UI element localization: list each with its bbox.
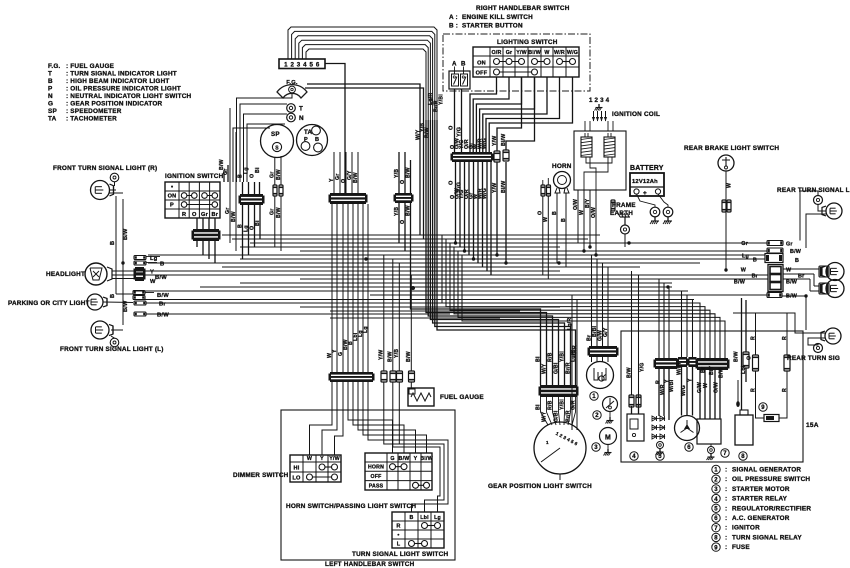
svg-text:•: • [397,532,399,538]
svg-text:•: • [171,185,173,191]
svg-text:PARKING OR CITY LIGHT: PARKING OR CITY LIGHT [8,300,90,307]
svg-text:R/B: R/B [547,352,553,362]
svg-text:LO: LO [292,475,301,481]
svg-text:B: B [753,258,757,264]
svg-text:B/W: B/W [406,351,412,362]
svg-text:REGULATOR/RECTIFIER: REGULATOR/RECTIFIER [732,505,811,512]
svg-text:15A: 15A [806,422,819,429]
svg-text:O/W: O/W [713,382,719,393]
svg-text:T: T [299,106,303,113]
svg-text:TA: TA [48,116,57,123]
svg-text:HEADLIGHT: HEADLIGHT [46,271,85,278]
svg-text:R: R [655,380,661,384]
svg-text:DIMMER SWITCH: DIMMER SWITCH [233,472,289,479]
svg-text:HORN SWITCH/PASSING LIGHT SWIT: HORN SWITCH/PASSING LIGHT SWITCH [286,503,416,510]
svg-text:HI: HI [294,465,300,471]
svg-text:6: 6 [687,445,691,451]
svg-text:1 2 3 4 5 6: 1 2 3 4 5 6 [284,62,320,69]
svg-text:R: R [182,212,186,218]
svg-text:IGNITOR: IGNITOR [732,525,760,532]
svg-text:Y/W: Y/W [516,50,527,56]
svg-text:BATTERY: BATTERY [630,165,664,172]
svg-text:P: P [304,137,308,143]
svg-text:G/Y: G/Y [603,327,609,337]
svg-text:W: W [786,268,792,274]
svg-text:B/W: B/W [155,275,167,281]
svg-text:P: P [48,86,53,93]
svg-text:Y: Y [414,456,418,462]
svg-text:PASS: PASS [369,483,384,489]
svg-text:B/W: B/W [157,313,169,319]
svg-text:Lg: Lg [243,167,249,174]
svg-text:O: O [192,212,197,218]
svg-text:B/W: B/W [786,280,798,286]
svg-text::: : [725,534,727,541]
svg-text:W: W [307,456,312,462]
svg-text:W: W [579,210,585,215]
svg-text:Y/B: Y/B [394,207,400,216]
svg-text:GEAR POSITION LIGHT SWITCH: GEAR POSITION LIGHT SWITCH [488,483,592,490]
svg-text:B: B [160,262,164,268]
svg-text:B/W: B/W [399,456,410,462]
svg-text:8: 8 [714,536,718,542]
svg-text:FRONT TURN SIGNAL LIGHT (R): FRONT TURN SIGNAL LIGHT (R) [53,165,157,172]
svg-text:Bi: Bi [255,167,261,173]
svg-text:SIGNAL GENERATOR: SIGNAL GENERATOR [732,467,801,474]
svg-text:B: B [48,78,53,85]
svg-text:TURN SIGNAL RELAY: TURN SIGNAL RELAY [732,534,802,541]
svg-text:9: 9 [761,405,765,411]
svg-text:W: W [727,183,733,188]
svg-text:B: B [795,258,799,264]
svg-text:W: W [150,279,156,285]
svg-text:Bi: Bi [255,220,261,226]
svg-text:Y/Bl: Y/Bl [439,94,445,105]
svg-text:B: B [561,218,567,222]
svg-text:1: 1 [714,468,718,474]
svg-text:FRONT TURN SIGNAL LIGHT (L): FRONT TURN SIGNAL LIGHT (L) [60,346,164,353]
svg-text:B/Y: B/Y [585,198,591,208]
svg-text:P: P [170,203,174,209]
svg-text:Bl: Bl [535,356,541,362]
svg-text:Br/R: Br/R [565,362,571,374]
svg-text:OFF: OFF [476,70,488,76]
svg-text:B/W: B/W [123,300,129,312]
svg-text:4: 4 [714,497,718,503]
svg-text:B/W: B/W [353,172,359,183]
svg-text:Y: Y [150,270,154,276]
svg-text:F.G.: F.G. [286,80,298,86]
svg-text:B/W: B/W [219,159,225,170]
svg-text:Br: Br [700,367,706,373]
svg-text:: SPEEDOMETER: : SPEEDOMETER [66,108,122,115]
svg-text:: NEUTRAL INDICATOR LIGHT SWIT: : NEUTRAL INDICATOR LIGHT SWITCH [66,93,192,100]
svg-text:2: 2 [714,477,718,483]
svg-text:O: O [449,180,455,185]
svg-text:B: B [315,137,319,143]
svg-text:W: W [543,217,549,222]
svg-text:Bl/W: Bl/W [420,456,433,462]
svg-text:W/G: W/G [681,385,687,396]
svg-text:5: 5 [658,454,662,460]
svg-text:ON: ON [168,194,177,200]
svg-text:B: B [110,241,116,245]
svg-text:12V12Ah: 12V12Ah [632,179,658,185]
svg-text:G: G [338,352,344,356]
svg-text:Y/G: Y/G [457,127,463,137]
svg-text:9: 9 [714,545,718,551]
svg-text:O: O [400,220,406,224]
svg-text:5: 5 [714,507,718,513]
svg-text:B: B [552,211,558,215]
svg-text:W/Bl: W/Bl [676,362,682,375]
svg-text:B: B [409,515,413,521]
svg-text:B: B [110,294,116,298]
svg-text:G/R: G/R [572,345,578,355]
svg-text:: FUEL GAUGE: : FUEL GAUGE [66,63,115,70]
svg-text:: TACHOMETER: : TACHOMETER [66,116,117,123]
svg-text:B/W: B/W [388,351,394,362]
svg-text:B/W: B/W [405,205,411,216]
svg-text:B/Y: B/Y [709,365,715,375]
svg-text:RIGHT HANDLEBAR SWITCH: RIGHT HANDLEBAR SWITCH [476,5,570,12]
svg-text:W: W [544,50,549,56]
svg-text:Y/W: Y/W [492,136,498,146]
svg-text:B/W: B/W [276,207,282,218]
svg-text:Br: Br [211,212,218,218]
svg-text:L: L [397,541,401,547]
svg-text:B/W: B/W [231,211,237,222]
svg-text:1: 1 [546,440,549,445]
svg-text:3: 3 [594,445,598,451]
svg-text:Gr: Gr [270,209,276,215]
svg-text:FRAME: FRAME [612,202,636,209]
svg-text:8: 8 [741,454,745,460]
svg-text:G/Bl: G/Bl [553,362,559,374]
svg-text:S: S [275,146,279,152]
svg-text:B/W: B/W [405,167,411,178]
svg-text:Br: Br [159,302,166,308]
svg-text:OIL PRESSURE SWITCH: OIL PRESSURE SWITCH [732,476,810,483]
svg-text:LIGHTING SWITCH: LIGHTING SWITCH [497,39,558,46]
svg-text:W/R: W/R [554,50,565,56]
svg-text:SP: SP [48,108,57,115]
svg-text::: : [725,515,727,522]
svg-text:ENGINE KILL SWITCH: ENGINE KILL SWITCH [462,14,533,21]
svg-text:LEFT HANDLEBAR SWITCH: LEFT HANDLEBAR SWITCH [325,561,415,568]
svg-text:Y/G: Y/G [640,362,646,372]
svg-text:O/W: O/W [591,207,597,218]
svg-text:Y: Y [320,456,324,462]
svg-text:1 2 3 4: 1 2 3 4 [589,97,610,104]
svg-text:7: 7 [723,451,727,457]
svg-text:F.G.: F.G. [48,63,61,70]
svg-text:Gr: Gr [201,212,209,218]
svg-text:O/R: O/R [491,50,501,56]
svg-text:IGNITION SWITCH: IGNITION SWITCH [165,173,224,180]
svg-text:O: O [449,125,455,130]
svg-text:REAR TURN SIG: REAR TURN SIG [787,355,840,362]
svg-text:STARTER MOTOR: STARTER MOTOR [732,486,790,493]
svg-text:+: + [643,190,647,197]
svg-text:A: A [452,61,457,68]
svg-text:7: 7 [714,526,718,532]
svg-text:N: N [48,93,53,100]
svg-text:B/W: B/W [157,293,169,299]
svg-text:Y/B: Y/B [394,169,400,178]
svg-text:4: 4 [632,454,636,460]
svg-text:B/W: B/W [733,351,739,362]
svg-text:B/W: B/W [734,280,746,286]
svg-text:2: 2 [595,413,599,419]
svg-text:HORN: HORN [368,465,384,471]
svg-text:OFF: OFF [371,474,382,480]
svg-text:STARTER BUTTON: STARTER BUTTON [462,23,523,30]
svg-text::: : [725,544,727,551]
svg-text:R: R [750,336,756,340]
svg-text:: TURN SIGNAL INDICATOR LIGHT: : TURN SIGNAL INDICATOR LIGHT [66,71,177,78]
svg-text:Y/B: Y/B [394,349,400,358]
svg-text:R: R [750,388,756,392]
svg-text:W/G: W/G [482,138,488,149]
svg-text::: : [725,467,727,474]
svg-text:O: O [400,180,406,184]
svg-text:Lbl: Lbl [420,515,429,521]
svg-text:IGNITION COIL: IGNITION COIL [612,111,660,118]
svg-text:B/W: B/W [786,294,798,300]
svg-text:T: T [48,71,52,78]
svg-text::: : [725,505,727,512]
svg-text:Y/Bl: Y/Bl [559,351,565,362]
svg-text:1: 1 [592,394,596,400]
svg-text:N: N [299,115,304,122]
svg-text:O: O [249,174,255,178]
svg-text:Lbl: Lbl [741,365,747,374]
svg-text:B :: B : [449,23,458,30]
svg-text:: HIGH BEAM INDICATOR LIGHT: : HIGH BEAM INDICATOR LIGHT [66,78,170,85]
svg-text:FUSE: FUSE [732,544,750,551]
svg-text:: GEAR POSITION INDICATOR: : GEAR POSITION INDICATOR [66,101,163,108]
svg-text:Gr: Gr [786,242,793,248]
svg-text:STARTER RELAY: STARTER RELAY [732,496,788,503]
svg-text:O: O [538,211,544,215]
svg-text:Y: Y [687,378,693,382]
svg-text:ON: ON [477,60,486,66]
svg-text:Y/W: Y/W [329,456,340,462]
svg-text:Bl/W: Bl/W [501,134,507,146]
svg-text:HORN: HORN [552,163,572,170]
svg-text:W/Bl: W/Bl [669,379,675,392]
svg-text:B/W: B/W [626,367,632,378]
svg-text:W/Y: W/Y [541,363,547,374]
svg-text:SP: SP [271,131,280,138]
svg-text:TURN SIGNAL LIGHT SWITCH: TURN SIGNAL LIGHT SWITCH [352,551,448,558]
svg-text:W: W [741,268,747,274]
svg-text:R: R [396,523,400,529]
svg-text:3: 3 [714,487,718,493]
svg-text:Lg: Lg [434,515,441,521]
svg-text:A :: A : [449,14,458,21]
svg-text:W/R: W/R [660,384,666,395]
svg-text:R: R [782,336,788,340]
svg-text:Gr: Gr [741,241,748,247]
svg-text:W/G: W/G [567,50,578,56]
svg-text:O: O [746,356,752,360]
svg-text:FUEL GAUGE: FUEL GAUGE [440,394,484,401]
svg-text:Gr: Gr [270,172,276,178]
svg-text:B/W: B/W [718,367,724,378]
svg-text:W: W [703,383,709,388]
svg-text::: : [725,486,727,493]
svg-text:Y/W: Y/W [379,350,385,360]
svg-text:G: G [48,101,53,108]
svg-text::: : [725,525,727,532]
svg-text:G: G [390,456,394,462]
svg-text::: : [725,496,727,503]
svg-text:: OIL PRESSURE INDICATOR LIGHT: : OIL PRESSURE INDICATOR LIGHT [66,86,181,93]
svg-text:A.C. GENERATOR: A.C. GENERATOR [732,515,790,522]
svg-text:REAR BRAKE LIGHT SWITCH: REAR BRAKE LIGHT SWITCH [684,145,779,152]
svg-text:O/W: O/W [573,199,579,210]
svg-text:R: R [782,388,788,392]
svg-text:W/Y: W/Y [416,129,422,140]
svg-text:B/W: B/W [790,249,802,255]
svg-text:Lg: Lg [363,326,369,333]
svg-text:B/W: B/W [276,169,282,180]
svg-text:Br: Br [798,274,805,280]
svg-text:6: 6 [714,516,718,522]
svg-text:Gr: Gr [506,50,513,56]
svg-text::: : [725,476,727,483]
svg-text:B: B [461,61,466,68]
svg-text:B/W: B/W [425,127,431,138]
svg-text:Lg/R: Lg/R [567,318,573,330]
svg-text:B/W: B/W [123,228,129,240]
svg-text:M: M [605,435,611,442]
svg-text:Bl/W: Bl/W [528,50,541,56]
